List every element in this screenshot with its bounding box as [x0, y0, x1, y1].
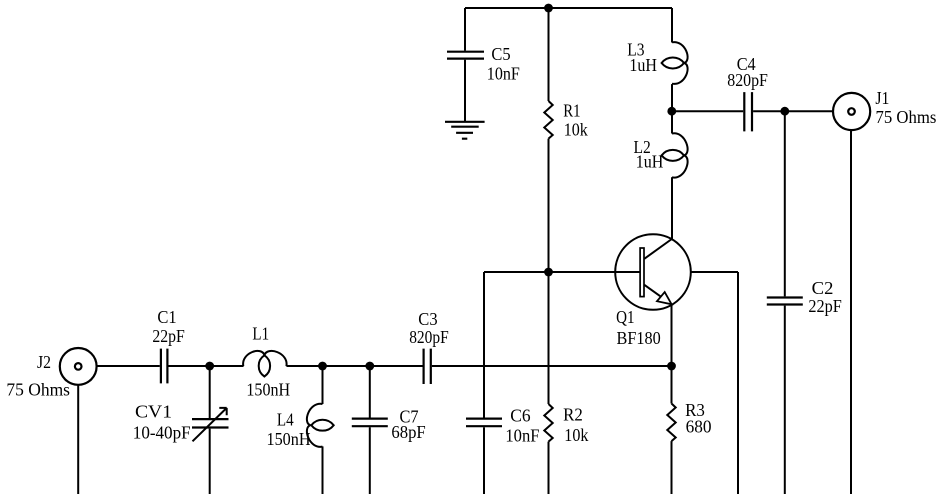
wire: R3 bottom — [671, 441, 673, 494]
junction: L3/L2/C4 node — [667, 107, 676, 116]
svg-text:J2: J2 — [37, 352, 51, 372]
ground — [445, 122, 485, 139]
wire: C1 to L1 — [169, 365, 244, 367]
svg-text:C5: C5 — [491, 44, 510, 64]
svg-text:75 Ohms: 75 Ohms — [876, 107, 937, 127]
junction: top rail / R1 — [544, 4, 553, 13]
junction: C4/J1/C2 node — [780, 107, 789, 116]
wire: R2 feed (base node down) — [548, 272, 550, 404]
svg-text:R1: R1 — [563, 101, 580, 121]
inductor L2 — [634, 133, 688, 177]
connector J1 — [833, 88, 937, 130]
svg-text:L4: L4 — [277, 410, 294, 430]
svg-text:820pF: 820pF — [727, 70, 768, 90]
wire: L2 top stub — [671, 111, 673, 133]
wire: J2 down — [77, 385, 79, 494]
wire: top supply rail — [465, 7, 672, 9]
wire: collector tap down — [737, 272, 739, 494]
svg-text:680: 680 — [686, 416, 712, 436]
wire: R3 top stub — [671, 366, 673, 404]
svg-text:820pF: 820pF — [409, 327, 449, 347]
junction: R1/base node — [544, 268, 553, 277]
svg-text:J1: J1 — [875, 88, 889, 108]
wire: L2 to Q1 collector — [671, 177, 673, 239]
svg-text:1uH: 1uH — [629, 55, 657, 75]
svg-text:C1: C1 — [157, 307, 176, 327]
junction: C1/CV1 node — [205, 362, 214, 371]
svg-text:22pF: 22pF — [808, 296, 842, 316]
wire: L3 to collector node — [671, 84, 673, 111]
junction: C7 node — [365, 362, 374, 371]
wire: Q1 collector tap right — [691, 271, 738, 273]
transistor Q1 — [615, 234, 691, 348]
capacitor C6 — [466, 406, 540, 446]
capacitor C2 — [767, 278, 842, 316]
svg-text:R2: R2 — [563, 405, 583, 425]
capacitor C3 — [409, 309, 449, 384]
wire: C5 top stub — [464, 8, 466, 51]
wire: L1 to C3 — [287, 365, 423, 367]
svg-text:C2: C2 — [812, 278, 834, 298]
wire: Q1 base lead — [484, 271, 640, 273]
capacitor C4 — [727, 54, 768, 131]
wire: C6 bottom — [483, 427, 485, 494]
wire: node to C4 — [672, 110, 743, 112]
svg-text:68pF: 68pF — [391, 422, 426, 442]
wire: C7 bottom — [369, 427, 371, 494]
svg-text:C6: C6 — [510, 406, 531, 426]
wire: J2 to C1 — [97, 365, 160, 367]
connector J2 — [6, 348, 96, 400]
wire: C2 top feed — [784, 111, 786, 296]
wire: L4 bottom — [322, 446, 324, 494]
svg-text:75 Ohms: 75 Ohms — [6, 380, 70, 400]
svg-text:L1: L1 — [252, 324, 269, 344]
wire: C7 top stub — [369, 366, 371, 418]
wire: C4 to J1 — [753, 110, 833, 112]
capacitor C7 — [352, 407, 426, 442]
wire: CV1 top stub — [209, 366, 211, 418]
inductor L4 — [267, 404, 334, 449]
resistor R3 — [667, 400, 711, 441]
wire: C2 bottom — [784, 306, 786, 494]
wire: R1 bottom to base node — [548, 139, 550, 272]
wire: Q1 emitter down — [671, 305, 673, 367]
svg-text:1uH: 1uH — [636, 151, 664, 171]
resistor R1 — [544, 101, 588, 140]
svg-text:10k: 10k — [564, 425, 588, 445]
wire: R1 top feed — [548, 8, 550, 101]
wire: C3 to emitter node — [432, 365, 672, 367]
variable capacitor CV1 — [133, 402, 229, 443]
inductor L1 — [243, 324, 290, 400]
wire: L3 top stub — [671, 8, 673, 43]
wire: R2 bottom — [548, 442, 550, 494]
wire: base down to C6 — [483, 272, 485, 418]
svg-text:C3: C3 — [418, 309, 438, 329]
svg-text:22pF: 22pF — [152, 326, 185, 346]
junction: L1/L4 node — [318, 362, 327, 371]
capacitor C1 — [152, 307, 185, 383]
svg-text:BF180: BF180 — [617, 328, 661, 348]
junction: emitter/R3/input node — [667, 362, 676, 371]
svg-text:150nH: 150nH — [246, 380, 290, 400]
wire: L4 top stub — [322, 366, 324, 404]
svg-text:10k: 10k — [564, 120, 588, 140]
wire: J1 down — [850, 130, 852, 494]
svg-text:10nF: 10nF — [505, 426, 539, 446]
inductor L3 — [627, 40, 687, 84]
capacitor C5 — [447, 44, 520, 83]
svg-text:10nF: 10nF — [487, 63, 520, 83]
svg-text:150nH: 150nH — [267, 429, 311, 449]
svg-text:10-40pF: 10-40pF — [133, 422, 191, 442]
wire: C5 to ground — [464, 60, 466, 121]
resistor R2 — [544, 404, 588, 445]
svg-text:Q1: Q1 — [616, 307, 634, 327]
svg-text:CV1: CV1 — [135, 402, 172, 422]
wire: CV1 bottom — [209, 429, 211, 494]
